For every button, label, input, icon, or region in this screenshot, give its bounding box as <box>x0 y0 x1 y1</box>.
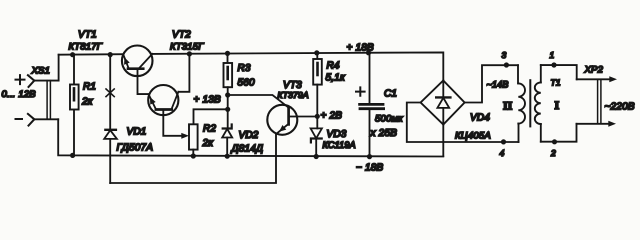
svg-text:1: 1 <box>550 50 555 60</box>
svg-text:VT2: VT2 <box>172 30 191 41</box>
terminal 3 <box>504 62 509 67</box>
resistor R3 <box>224 53 256 128</box>
capacitor C1 <box>356 53 403 156</box>
svg-text:КС119А: КС119А <box>323 140 356 150</box>
svg-text:500мк: 500мк <box>375 114 403 125</box>
svg-text:I: I <box>555 98 560 112</box>
svg-text:XS1: XS1 <box>31 66 51 77</box>
svg-text:C1: C1 <box>384 89 397 100</box>
wire T1 pin2 to XP2 bottom <box>541 124 577 142</box>
wire VT1 base to VT2 emitter <box>138 70 149 95</box>
svg-text:КТ379А: КТ379А <box>278 90 309 100</box>
transistor VT2 <box>148 30 204 116</box>
junction VD2 bottom <box>225 154 230 159</box>
diode VD1 <box>104 55 153 183</box>
wire T1 pin1 to XP2 top <box>541 65 577 79</box>
resistor R2 preset <box>189 124 216 157</box>
svg-text:VD3: VD3 <box>327 129 347 140</box>
svg-text:VD4: VD4 <box>470 113 490 124</box>
connector XS1 <box>2 66 59 126</box>
svg-text:II: II <box>503 99 513 113</box>
terminal 2 <box>552 139 557 144</box>
bridge rectifier VD4 <box>421 81 491 142</box>
svg-text:5,1к: 5,1к <box>326 73 347 84</box>
resistor R4 <box>313 53 346 116</box>
wire bridge AC right ~14V <box>465 65 518 102</box>
svg-text:XP2: XP2 <box>584 65 604 76</box>
junction VD3 bottom <box>314 154 319 159</box>
terminal 1 <box>551 62 556 67</box>
transformer T1 <box>500 50 561 158</box>
transistor VT3 <box>267 80 309 135</box>
svg-text:R2: R2 <box>203 124 216 135</box>
resistor R1 <box>70 55 96 156</box>
svg-text:2к: 2к <box>81 97 94 108</box>
junction node +2V <box>315 114 320 119</box>
svg-text:R1: R1 <box>83 82 96 93</box>
svg-text:Д814Д: Д814Д <box>231 144 264 155</box>
svg-text:~220В: ~220В <box>605 102 635 113</box>
junction C1 top <box>366 50 371 55</box>
svg-text:2к: 2к <box>202 138 215 149</box>
svg-text:R4: R4 <box>327 61 340 72</box>
node +13V junctions <box>225 92 230 97</box>
svg-text:VT1: VT1 <box>78 30 97 41</box>
junction VD1 top <box>108 52 113 57</box>
junction R1 bottom <box>70 153 75 158</box>
svg-text:Т1: Т1 <box>551 78 561 88</box>
svg-text:3: 3 <box>502 50 507 60</box>
svg-text:+ 2В: + 2В <box>321 111 343 122</box>
terminal 4 <box>501 139 506 144</box>
junction VT2 collector on rail <box>187 51 192 56</box>
svg-text:0... 12В: 0... 12В <box>2 89 37 100</box>
wire +18V top rail <box>152 52 443 80</box>
svg-text:VD2: VD2 <box>239 130 259 141</box>
svg-text:+ 13В: + 13В <box>194 95 222 106</box>
wire bridge AC left <box>407 103 519 143</box>
svg-text:2: 2 <box>550 148 556 158</box>
wire VT2 base to R2 wiper <box>163 110 189 139</box>
wire VT3 emitter to VD1 anode <box>110 134 276 183</box>
junction R4 top <box>314 50 319 55</box>
svg-text:~14В: ~14В <box>487 80 509 90</box>
zener VD2 <box>222 125 263 157</box>
junction R3 top <box>225 51 230 56</box>
svg-text:R3: R3 <box>238 63 251 74</box>
junction R2 bottom <box>191 153 196 158</box>
diode VD3 <box>311 116 356 156</box>
connector XP2 <box>577 65 635 127</box>
wire XS1 plus riser <box>58 55 60 81</box>
wire -18V bottom rail <box>58 119 443 156</box>
svg-text:560: 560 <box>238 78 256 89</box>
wire VT2 collector to rail <box>178 54 189 92</box>
svg-text:КТ817Г: КТ817Г <box>69 42 103 53</box>
wire VT3 base <box>228 95 289 108</box>
junction C1 bottom <box>367 154 372 159</box>
wire top-left rail <box>59 53 124 56</box>
svg-text:VD1: VD1 <box>127 127 147 138</box>
wire VT3 collector to node +2V <box>297 116 317 118</box>
junction R1 top <box>70 52 75 57</box>
svg-text:x 25В: x 25В <box>370 128 398 139</box>
wire node to R2 top <box>194 109 228 124</box>
svg-text:− 18В: − 18В <box>356 163 384 174</box>
wire bridge DC minus to rail <box>442 125 444 156</box>
transistor VT1 <box>69 30 153 77</box>
svg-text:КТ315Г: КТ315Г <box>170 42 204 53</box>
svg-text:4: 4 <box>500 148 505 158</box>
svg-text:ГД507А: ГД507А <box>117 143 154 154</box>
svg-text:КЦ405А: КЦ405А <box>455 131 491 142</box>
